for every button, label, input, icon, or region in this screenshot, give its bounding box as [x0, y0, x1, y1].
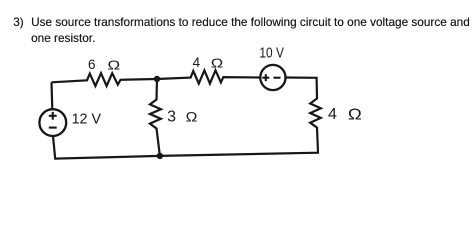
- svg-text:Ω: Ω: [186, 110, 198, 125]
- svg-text:3: 3: [167, 108, 176, 125]
- svg-text:Ω: Ω: [211, 56, 223, 71]
- svg-text:4: 4: [193, 55, 201, 70]
- svg-text:Ω: Ω: [107, 58, 120, 73]
- svg-text:6: 6: [88, 57, 96, 72]
- svg-text:12 V: 12 V: [72, 112, 102, 128]
- svg-text:4: 4: [328, 106, 337, 123]
- svg-text:Ω: Ω: [348, 106, 362, 123]
- svg-text:10 V: 10 V: [259, 45, 284, 61]
